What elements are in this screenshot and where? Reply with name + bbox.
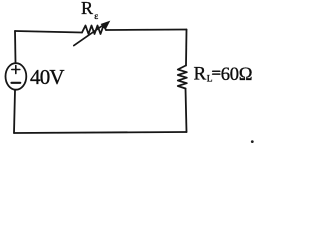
source V1 circle xyxy=(6,63,27,90)
wire right upper xyxy=(185,30,188,66)
rheostat arrow xyxy=(74,21,111,46)
wire top-left segment xyxy=(15,31,82,33)
wire bottom xyxy=(14,132,187,133)
resistor RL zigzag xyxy=(178,66,187,89)
wire left lower xyxy=(14,90,15,133)
svg-text:R: R xyxy=(81,0,93,18)
rheostat Rε zigzag xyxy=(82,26,106,35)
speck bottom-right xyxy=(251,140,254,143)
svg-text:R: R xyxy=(194,64,207,85)
source minus sign xyxy=(12,82,21,84)
source plus sign xyxy=(12,66,20,74)
wire left upper xyxy=(14,31,17,63)
svg-text:40V: 40V xyxy=(30,65,64,89)
svg-text:ε: ε xyxy=(94,12,98,22)
svg-text:60Ω: 60Ω xyxy=(221,65,253,85)
svg-text:L: L xyxy=(207,75,213,85)
wire top-right segment xyxy=(106,29,187,32)
wire right lower xyxy=(186,89,187,133)
